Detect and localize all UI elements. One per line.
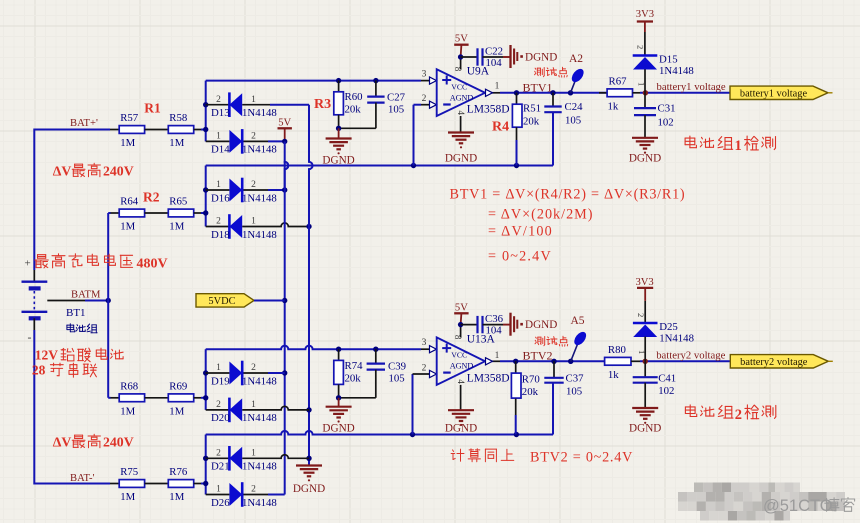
junction test point A2	[568, 90, 573, 95]
svg-text:105: 105	[566, 386, 582, 398]
svg-text:R2: R2	[143, 190, 160, 205]
svg-text:= ΔV×(20k/2M): = ΔV×(20k/2M)	[488, 207, 594, 223]
svg-text:R57: R57	[120, 112, 139, 124]
svg-text:R3: R3	[314, 97, 331, 112]
port flag 5VDC	[196, 294, 254, 307]
junction D15/C31	[643, 90, 648, 95]
svg-text:105: 105	[389, 373, 405, 385]
svg-text:1N4148: 1N4148	[242, 375, 277, 387]
svg-text:DGND: DGND	[445, 423, 477, 435]
svg-text:BTV2: BTV2	[523, 349, 553, 363]
svg-text:DGND: DGND	[525, 52, 557, 64]
annotation battery group 2 detection	[685, 405, 696, 417]
junction R60 bottom	[336, 126, 341, 131]
svg-text:105: 105	[565, 115, 581, 127]
port flag battery2 voltage	[730, 355, 828, 368]
svg-text:BATM: BATM	[71, 290, 101, 301]
svg-text:R80: R80	[608, 344, 626, 356]
wire D26 row	[206, 494, 230, 496]
svg-text:1M: 1M	[120, 491, 135, 503]
wire D20 row	[206, 409, 230, 411]
test point A5	[571, 343, 578, 361]
svg-text:1k: 1k	[608, 100, 619, 112]
svg-text:1N4148: 1N4148	[242, 229, 277, 241]
wire R64-R65	[145, 212, 169, 214]
wire BATM riser to R68	[108, 397, 110, 399]
svg-text:D18: D18	[211, 229, 230, 241]
svg-text:102: 102	[658, 117, 674, 129]
svg-text:R75: R75	[120, 466, 138, 478]
svg-text:R70: R70	[522, 374, 540, 386]
ground DGND below C31	[632, 137, 658, 139]
svg-text:105: 105	[388, 104, 404, 116]
junction D14-5V	[282, 139, 287, 144]
pin1 arrow U9A	[486, 89, 493, 96]
svg-text:2: 2	[216, 449, 221, 459]
resistor R51 20k feedback	[516, 93, 518, 105]
junction bus-C39	[373, 347, 378, 352]
svg-text:BTV2 = 0~2.4V: BTV2 = 0~2.4V	[530, 450, 633, 466]
resistor R60 20k	[338, 81, 340, 92]
wire R60 bottom to C27 bottom	[338, 115, 340, 129]
svg-text:R51: R51	[523, 103, 541, 115]
svg-text:AGND: AGND	[450, 362, 474, 371]
svg-text:2: 2	[251, 180, 256, 190]
svg-text:R4: R4	[492, 120, 509, 135]
svg-text:5VDC: 5VDC	[208, 296, 235, 307]
svg-text:-: -	[28, 330, 32, 344]
svg-text:C22: C22	[485, 46, 503, 58]
power 5V U13A	[454, 312, 468, 314]
svg-text:2: 2	[735, 407, 742, 423]
svg-text:battery1 voltage: battery1 voltage	[657, 81, 726, 93]
wire riser diode block D19/D20	[205, 349, 207, 410]
junction R74 bottom	[336, 395, 341, 400]
svg-text:D25: D25	[659, 321, 678, 333]
annotation max charge voltage 480V	[35, 255, 48, 268]
svg-text:104: 104	[486, 57, 503, 69]
svg-text:DGND: DGND	[525, 319, 557, 331]
resistor R75 1M	[119, 480, 144, 488]
svg-text:3V3: 3V3	[636, 9, 654, 20]
wire C37 bottom corner	[552, 383, 554, 435]
wire D25 to output net	[644, 337, 646, 362]
wire battery minus down to BAT- row	[33, 318, 35, 330]
svg-text:1: 1	[251, 449, 256, 459]
svg-text:3: 3	[422, 338, 427, 348]
svg-text:1M: 1M	[169, 137, 184, 149]
svg-text:R68: R68	[120, 380, 138, 392]
capacitor C27 105	[375, 81, 377, 97]
svg-text:1N4148: 1N4148	[242, 107, 277, 119]
wire R58 to diode block D13/D14	[194, 129, 201, 131]
wire top bus to op-amp pin3	[206, 80, 421, 82]
power 5V U9A	[454, 44, 468, 46]
svg-text:1N4148: 1N4148	[242, 497, 277, 509]
svg-text:1M: 1M	[169, 491, 184, 503]
capacitor C36 104	[461, 324, 478, 326]
wire lower top bus to op-amp pin3	[206, 346, 421, 350]
svg-text:240V: 240V	[103, 434, 134, 449]
svg-text:1N4148: 1N4148	[242, 461, 277, 473]
svg-text:C31: C31	[658, 103, 676, 115]
svg-text:D15: D15	[659, 54, 678, 66]
port flag battery1 voltage	[730, 86, 828, 99]
svg-text:D16: D16	[211, 192, 230, 204]
diode D20 1N4148	[229, 398, 242, 421]
svg-text:1: 1	[216, 132, 221, 142]
svg-text:C37: C37	[566, 373, 585, 385]
svg-text:DGND: DGND	[629, 153, 661, 165]
wire pin4 to DGND	[460, 116, 462, 132]
junction riser-input R76	[203, 481, 208, 486]
svg-text:20k: 20k	[523, 116, 540, 128]
capacitor C31 102	[644, 93, 646, 108]
junction bus-R60	[336, 78, 341, 83]
svg-text:LM358D: LM358D	[467, 372, 510, 384]
label test point 1	[535, 68, 545, 77]
junction riser-D21	[203, 456, 208, 461]
svg-text:240V: 240V	[103, 163, 134, 178]
svg-text:1: 1	[216, 485, 221, 495]
resistor R65 1M	[168, 209, 193, 217]
svg-text:1: 1	[637, 350, 647, 354]
resistor R74 20k	[338, 349, 340, 360]
resistor R57 1M	[119, 126, 144, 134]
resistor R67 1k	[599, 92, 607, 94]
ground DGND bar style lower	[503, 324, 511, 326]
svg-text:2: 2	[422, 364, 427, 374]
ground DGND below U9A	[448, 131, 474, 133]
junction bus-C27	[373, 78, 378, 83]
svg-text:D13: D13	[211, 107, 230, 119]
wire R65 to diode block D16/D18	[194, 212, 201, 214]
svg-text:D26: D26	[211, 497, 230, 509]
wire D14 row	[206, 140, 230, 142]
annotation battery group 1 detection	[685, 136, 696, 148]
wire D15 to output net	[644, 69, 646, 93]
junction C24 top	[550, 90, 555, 95]
svg-text:VCC: VCC	[451, 83, 467, 92]
svg-text:2: 2	[216, 217, 221, 227]
junction R70 top	[513, 359, 518, 364]
svg-text:1N4148: 1N4148	[242, 412, 277, 424]
svg-text:1N4148: 1N4148	[659, 65, 694, 77]
svg-text:C39: C39	[388, 361, 406, 373]
wire corner BATM riser to R64	[108, 212, 110, 214]
svg-text:1: 1	[216, 363, 221, 373]
svg-text:480V: 480V	[137, 256, 168, 271]
resistor R70 20k feedback	[515, 361, 517, 372]
wire bus to op-amp pin2	[206, 165, 553, 167]
wire pin8 to 5V node lower	[460, 325, 462, 338]
capacitor C37 105	[553, 361, 555, 378]
wire pin4 to DGND lower	[460, 385, 462, 410]
wire C24 bottom corner	[552, 112, 554, 165]
diode D13 1N4148	[229, 93, 242, 116]
svg-text:@51CTO: @51CTO	[763, 497, 833, 515]
svg-text:1: 1	[251, 217, 256, 227]
svg-text:1: 1	[251, 400, 256, 410]
junction riser-input BATM	[203, 210, 208, 215]
junction pin2 riser	[411, 163, 416, 168]
junction riser-D19	[203, 370, 208, 375]
wire riser diode block D21/D26	[205, 435, 207, 495]
svg-text:2: 2	[251, 485, 256, 495]
wire R68-R69	[145, 397, 169, 399]
wire R57-R58	[145, 129, 169, 131]
label battery pack	[67, 324, 75, 332]
capacitor C22 104	[461, 56, 478, 58]
wire U13A output BTV2	[492, 360, 500, 362]
wire gnd vertical rail	[309, 105, 313, 466]
svg-text:1: 1	[637, 82, 647, 86]
wire 3V3 to D15	[644, 32, 646, 56]
battery BT1	[22, 281, 48, 283]
junction riser-input R69	[203, 395, 208, 400]
diode D15 1N4148	[633, 54, 658, 57]
ground DGND below R74	[338, 398, 340, 407]
svg-text:+: +	[25, 258, 31, 270]
capacitor C41 102	[644, 361, 646, 377]
svg-text:VCC: VCC	[451, 351, 467, 360]
capacitor C24 105	[552, 93, 554, 107]
svg-text:DGND: DGND	[445, 153, 477, 165]
wire R75-R76	[145, 483, 169, 485]
svg-text:BTV1 = ΔV×(R4/R2) = ΔV×(R3/R1): BTV1 = ΔV×(R4/R2) = ΔV×(R3/R1)	[450, 187, 686, 203]
svg-text:1M: 1M	[169, 405, 184, 417]
svg-text:battery1 voltage: battery1 voltage	[740, 88, 808, 99]
svg-text:R58: R58	[169, 112, 187, 124]
junction bus-R74	[336, 347, 341, 352]
svg-text:1N4148: 1N4148	[659, 333, 694, 345]
junction D16-5V	[282, 187, 287, 192]
wire BATM from battery to riser	[47, 300, 85, 302]
junction D21-gnd	[306, 456, 311, 461]
wire left vertical BAT+ to battery	[33, 129, 35, 271]
svg-text:1N4148: 1N4148	[242, 144, 277, 156]
svg-text:battery2 voltage: battery2 voltage	[656, 349, 725, 361]
wire pin2 riser lower	[412, 374, 414, 435]
wire D13 row	[206, 104, 230, 106]
svg-text:8: 8	[453, 335, 463, 340]
svg-text:ΔV: ΔV	[53, 163, 72, 178]
svg-text:5V: 5V	[455, 34, 468, 45]
svg-text:20k: 20k	[345, 373, 362, 385]
svg-text:1: 1	[495, 82, 500, 92]
svg-text:1M: 1M	[120, 137, 135, 149]
wire 5V vertical rail	[285, 141, 289, 190]
svg-text:A5: A5	[571, 315, 585, 327]
wire R69 to diode block D19/D20	[194, 397, 201, 399]
junction 5V-C36	[458, 322, 463, 327]
diode D16 1N4148	[229, 179, 242, 202]
svg-text:2: 2	[216, 400, 221, 410]
junction riser-D16	[203, 187, 208, 192]
svg-text:C41: C41	[658, 373, 676, 385]
svg-text:ΔV: ΔV	[53, 434, 72, 449]
svg-text:D20: D20	[211, 412, 230, 424]
svg-text:5V: 5V	[278, 117, 291, 128]
diode D18 1N4148	[229, 215, 242, 238]
junction R51 bottom	[514, 163, 519, 168]
svg-text:1M: 1M	[169, 221, 184, 233]
ground DGND bar style top	[503, 56, 511, 58]
svg-text:1M: 1M	[120, 405, 135, 417]
wire U9A output BTV1	[492, 92, 500, 94]
wire riser diode block D13/D14	[205, 81, 207, 142]
svg-text:R76: R76	[169, 466, 188, 478]
svg-text:DGND: DGND	[322, 423, 354, 435]
junction test point A5	[568, 359, 573, 364]
svg-text:12V: 12V	[35, 348, 59, 363]
ground DGND below R60	[338, 128, 340, 138]
svg-text:20k: 20k	[345, 104, 362, 116]
svg-text:104: 104	[486, 324, 503, 336]
resistor R64 1M	[119, 209, 144, 217]
svg-text:1: 1	[251, 95, 256, 105]
svg-text:R67: R67	[609, 75, 628, 87]
svg-text:C24: C24	[565, 101, 584, 113]
wire 5VDC to 5V rail	[254, 300, 285, 302]
junction BATM riser	[106, 298, 111, 303]
wire 3V3 to D25	[644, 301, 646, 323]
svg-text:BAT-': BAT-'	[70, 473, 95, 484]
svg-text:R74: R74	[345, 360, 364, 372]
svg-text:AGND: AGND	[450, 94, 474, 103]
svg-text:R1: R1	[144, 101, 161, 116]
junction 5V-C22	[458, 54, 463, 59]
watermark mosaic	[678, 483, 845, 521]
svg-text:1N4148: 1N4148	[242, 192, 277, 204]
svg-text:4: 4	[456, 379, 466, 384]
diode D14 1N4148	[229, 130, 242, 153]
wire BAT- to R75	[34, 483, 110, 485]
svg-text:C36: C36	[485, 313, 504, 325]
svg-text:R69: R69	[169, 380, 187, 392]
junction D25/C41	[643, 359, 648, 364]
pin2 arrow U13A	[430, 370, 437, 377]
wire R74 bottom to C39 bottom	[338, 384, 340, 397]
ground DGND below C41	[632, 407, 658, 409]
wire D19 row	[206, 372, 230, 374]
resistor R68 1M	[119, 394, 144, 402]
svg-text:BT1: BT1	[66, 307, 86, 319]
svg-text:2: 2	[216, 95, 221, 105]
svg-text:1k: 1k	[608, 369, 619, 381]
svg-text:BAT+': BAT+'	[70, 118, 98, 129]
wire D16 row	[206, 189, 230, 191]
wire D21 row	[206, 457, 230, 459]
ground DGND below gnd rail	[296, 464, 322, 466]
svg-text:A2: A2	[569, 53, 583, 65]
wire BAT+ net from battery to R57	[34, 129, 110, 131]
svg-text:5V: 5V	[455, 302, 468, 313]
junction D18-gnd riser	[306, 224, 311, 229]
svg-text:20k: 20k	[522, 386, 539, 398]
junction D20-gnd	[306, 407, 311, 412]
svg-text:2: 2	[251, 132, 256, 142]
wire D18 row	[206, 226, 230, 228]
svg-text:102: 102	[658, 385, 674, 397]
svg-text:R60: R60	[345, 91, 363, 103]
svg-text:2: 2	[422, 94, 427, 104]
resistor R69 1M	[168, 394, 193, 402]
resistor R76 1M	[168, 480, 193, 488]
diode D19 1N4148	[229, 362, 242, 385]
svg-text:8: 8	[453, 67, 463, 72]
svg-text:DGND: DGND	[629, 423, 661, 435]
op-amp U13A LM358D	[437, 337, 485, 385]
svg-text:3V3: 3V3	[635, 277, 653, 288]
junction R70 bottom	[514, 432, 519, 437]
diode D21 1N4148	[229, 447, 242, 470]
resistor R58 1M	[168, 126, 193, 134]
junction pin2 riser lower	[410, 432, 415, 437]
ground DGND below U13A	[448, 409, 474, 411]
svg-text:1: 1	[735, 138, 742, 154]
svg-text:DGND: DGND	[293, 483, 325, 495]
svg-text:28: 28	[32, 363, 46, 378]
annotation same calculation as above	[451, 449, 464, 461]
op-amp U9A LM358D	[437, 69, 485, 116]
power 5V top	[278, 127, 292, 129]
wire R76 to diode block D21/D26	[194, 483, 201, 485]
junction riser-input BAT+	[203, 127, 208, 132]
svg-text:BTV1: BTV1	[523, 81, 553, 95]
svg-text:2: 2	[251, 363, 256, 373]
wire pin2 riser	[413, 105, 415, 166]
svg-text:D14: D14	[211, 144, 230, 156]
junction 5VDC tap	[282, 298, 287, 303]
svg-text:D19: D19	[211, 375, 230, 387]
junction riser-D13	[203, 102, 208, 107]
diode D25 1N4148	[633, 322, 658, 325]
svg-text:2: 2	[636, 313, 646, 317]
svg-text:= ΔV/100: = ΔV/100	[488, 224, 553, 240]
wire BATM riser R64 to R68	[107, 213, 109, 398]
svg-text:1M: 1M	[120, 221, 135, 233]
svg-text:3: 3	[422, 70, 427, 80]
svg-text:LM358D: LM358D	[467, 104, 510, 116]
wire lower bus to op-amp pin2	[206, 431, 553, 435]
svg-text:R64: R64	[120, 196, 139, 208]
diode D26 1N4148	[229, 483, 242, 506]
svg-text:R65: R65	[169, 196, 187, 208]
pin3 arrow U9A	[430, 77, 437, 84]
svg-text:4: 4	[456, 111, 466, 116]
svg-text:1: 1	[495, 351, 500, 361]
pin1 arrow U13A	[486, 358, 493, 365]
svg-text:1: 1	[216, 180, 221, 190]
junction C37 top	[551, 359, 556, 364]
test point A2	[571, 80, 576, 93]
capacitor C39 105	[375, 349, 377, 363]
svg-text:D21: D21	[211, 461, 230, 473]
resistor R80 1k	[605, 357, 631, 365]
label test point 2	[535, 337, 545, 346]
pin3 arrow U13A	[430, 346, 437, 353]
pin2 arrow U9A	[430, 101, 437, 108]
wire riser diode block D16/D18	[205, 166, 207, 227]
svg-text:battery2 voltage: battery2 voltage	[740, 357, 808, 368]
junction R51 top	[514, 90, 519, 95]
wire pin8 to 5V node	[460, 57, 462, 69]
svg-text:C27: C27	[387, 92, 406, 104]
svg-text:= 0~2.4V: = 0~2.4V	[488, 249, 552, 265]
junction D19-5V	[282, 370, 287, 375]
svg-text:2: 2	[636, 45, 646, 49]
